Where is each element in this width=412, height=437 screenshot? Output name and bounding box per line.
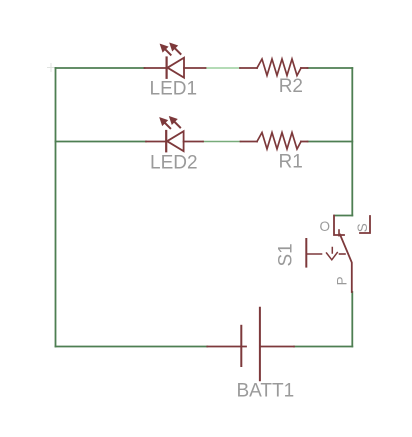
svg-text:R2: R2: [279, 76, 303, 97]
resistor R2: [240, 59, 308, 76]
wire: net between LED2 and R1: [203, 141, 241, 143]
svg-text:LED1: LED1: [150, 78, 198, 99]
svg-text:O: O: [320, 219, 331, 234]
actuator arrow of S1: [331, 248, 333, 254]
plunger bar of S1: [305, 239, 307, 267]
svg-text:BATT1: BATT1: [237, 380, 295, 401]
battery BATT1: [207, 308, 294, 380]
switch S1: [306, 216, 370, 293]
positive pin of BATT1: [260, 346, 294, 348]
wire: net from R2 to top-right corner: [308, 67, 353, 69]
wire: top row net from left corner to LED1 anode pin: [56, 67, 145, 69]
LED LED1: [145, 44, 206, 78]
pin S of S1: [360, 216, 370, 233]
wire: left vertical net from top-left corner to bottom-left corner: [55, 68, 57, 347]
wire: net from R1 to right vertical: [308, 141, 353, 143]
wire: row2 net from left vertical to LED2 anode pin: [56, 141, 147, 143]
svg-text:P: P: [334, 276, 349, 285]
faint origin cross near top-left corner: [48, 64, 55, 72]
wire: bottom net from battery negative pin to bottom-left corner: [56, 346, 208, 348]
wire: net from switch pin P down to bottom-right corner: [351, 292, 353, 347]
lever of S1: [340, 235, 352, 293]
LED LED2: [146, 117, 203, 151]
negative plate of BATT1: [240, 326, 242, 366]
lever tick of S1: [338, 230, 340, 236]
positive plate of BATT1: [259, 308, 261, 380]
svg-text:S: S: [355, 223, 370, 232]
negative pin of BATT1: [207, 346, 246, 348]
resistor R1: [241, 133, 308, 150]
svg-text:R1: R1: [279, 151, 303, 172]
actuator dashed link of S1: [307, 253, 322, 255]
pin O of S1: [334, 216, 344, 236]
wire: bottom net from right corner to battery positive pin: [294, 346, 352, 348]
wire: right vertical net from top-right corner down to switch jog: [351, 68, 353, 216]
svg-text:S1: S1: [276, 243, 297, 266]
wire: net between LED1 and R2 (light): [206, 67, 241, 69]
svg-text:LED2: LED2: [150, 153, 198, 174]
wire: jog into switch pin O: [335, 215, 353, 217]
